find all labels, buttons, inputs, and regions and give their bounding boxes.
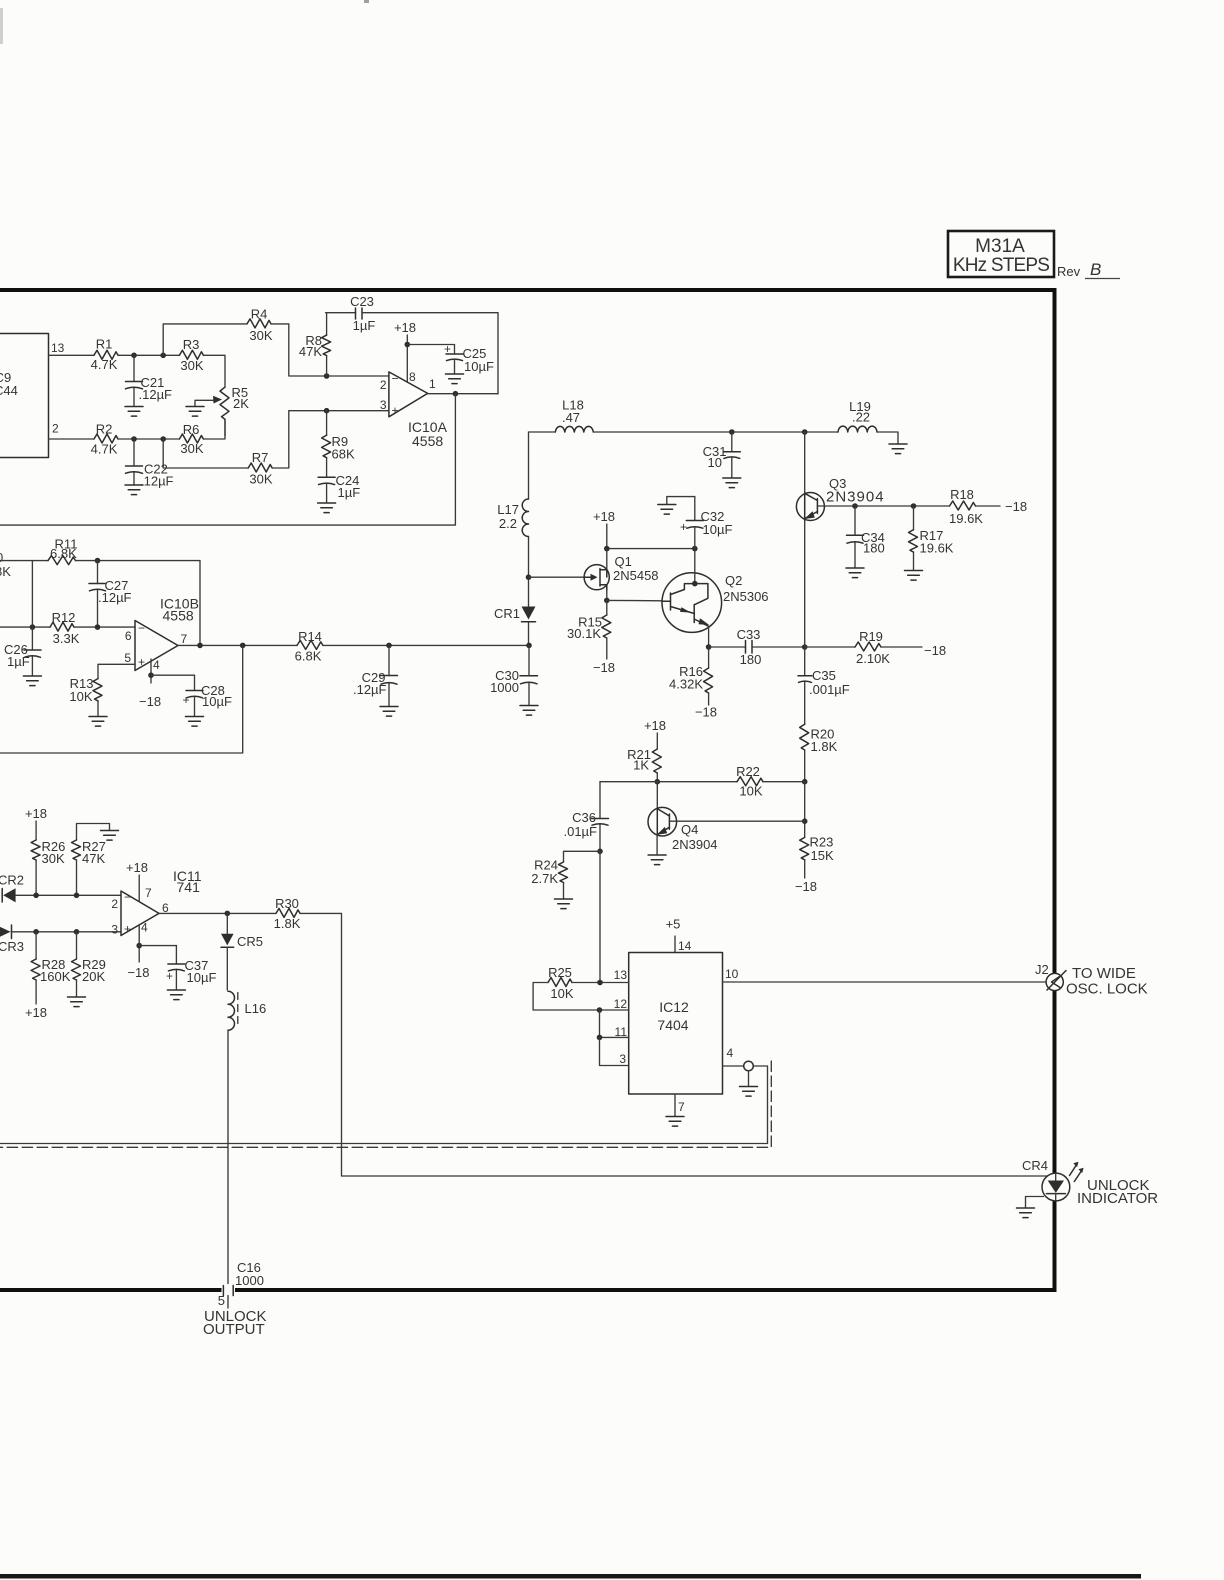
svg-text:2: 2: [52, 422, 59, 436]
capacitor C24 1uF: [318, 473, 360, 503]
node junction: [95, 558, 101, 564]
node junction: [160, 353, 166, 359]
svg-text:C36: C36: [572, 810, 596, 825]
svg-text:8K: 8K: [0, 564, 11, 579]
node junction: [692, 546, 698, 552]
ground (C32): [658, 497, 695, 514]
capacitor C35 .001uF: [798, 647, 850, 724]
resistor R18 19.6K: [949, 487, 1000, 526]
svg-text:30K: 30K: [180, 441, 203, 456]
capacitor C33 180: [709, 627, 805, 667]
svg-text:4558: 4558: [412, 433, 443, 449]
wire R11 to feedback corner: [76, 561, 201, 646]
svg-text:2K: 2K: [233, 396, 249, 411]
ground: [1017, 1208, 1035, 1218]
resistor R24 2.7K: [531, 851, 600, 898]
wire IC9 pin13 to R1: [49, 354, 95, 356]
wire pin 4 to -18: [150, 659, 152, 683]
wire pin 5 to R13: [98, 664, 135, 678]
inductor L17 2.2: [497, 432, 528, 577]
svg-text:10µF: 10µF: [187, 970, 217, 985]
svg-text:1µF: 1µF: [7, 654, 30, 669]
svg-text:20K: 20K: [82, 969, 105, 984]
svg-text:+18: +18: [394, 320, 416, 335]
svg-text:−18: −18: [695, 705, 717, 720]
inductor L18 .47: [555, 398, 593, 433]
node junction: [240, 643, 246, 649]
ground: [446, 374, 464, 384]
resistor R20 1.8K: [800, 724, 838, 782]
wire Q1 drain / source vertical: [606, 549, 608, 601]
svg-text:+18: +18: [644, 718, 666, 733]
svg-text:12: 12: [614, 997, 628, 1011]
wire drain rail: [607, 548, 695, 550]
svg-text:5: 5: [124, 651, 131, 665]
resistor R2 4.7K: [91, 422, 118, 457]
svg-text:Q4: Q4: [681, 822, 698, 837]
svg-text:8: 8: [409, 370, 416, 384]
+18 supply (IC11 pin 7): [126, 860, 148, 902]
node junction: [655, 779, 661, 785]
svg-text:30K: 30K: [42, 851, 65, 866]
svg-text:−: −: [124, 890, 131, 904]
svg-text:2: 2: [111, 897, 118, 911]
svg-text:4.32K: 4.32K: [669, 677, 703, 692]
wire IC11 pin 4: [138, 925, 140, 962]
resistor R6 30K: [179, 422, 203, 456]
resistor R15 30.1K: [567, 600, 611, 659]
resistor R29 20K: [72, 932, 106, 997]
svg-text:2.7K: 2.7K: [531, 871, 558, 886]
wire L17 top to L18: [529, 431, 556, 433]
svg-text:10µF: 10µF: [464, 359, 494, 374]
node junction (pin 11): [597, 1035, 603, 1041]
shield boundary (dashed): [0, 1061, 771, 1147]
svg-text:+: +: [392, 404, 399, 418]
svg-text:47K: 47K: [82, 851, 105, 866]
wire IC12 pin 10 to J2: [723, 981, 1047, 983]
capacitor C34 180: [847, 506, 885, 568]
ground: [648, 855, 666, 865]
wire left edge to R11: [0, 560, 48, 562]
ground: [666, 1117, 684, 1127]
svg-text:R30: R30: [275, 896, 299, 911]
connector J2: [1035, 962, 1066, 991]
svg-text:OSC. LOCK: OSC. LOCK: [1066, 981, 1148, 998]
resistor R13 10K: [69, 676, 102, 716]
wire feedthrough down and left (unlock line): [0, 1066, 768, 1144]
svg-text:M31A: M31A: [975, 236, 1025, 257]
node junction (Q1 gate): [526, 574, 532, 580]
svg-text:.12µF: .12µF: [353, 682, 387, 697]
wire R1 to R3: [118, 354, 179, 356]
node junction: [852, 503, 858, 509]
node junction (Q3 collector): [802, 429, 808, 435]
ground: [889, 444, 907, 454]
svg-text:CR3: CR3: [0, 939, 24, 954]
wire R3 to R5 top: [203, 355, 225, 387]
svg-text:6: 6: [125, 629, 132, 643]
svg-text:R25: R25: [548, 965, 572, 980]
op-amp U IC11 741: [111, 868, 201, 937]
svg-text:Rev: Rev: [1057, 264, 1081, 279]
svg-text:IC12: IC12: [659, 999, 689, 1015]
ground: [125, 407, 143, 417]
IC9 box (clipped at left edge): [0, 334, 49, 458]
potentiometer R5 2K: [195, 385, 249, 419]
svg-text:30K: 30K: [180, 358, 203, 373]
wire left edge to R12: [0, 626, 50, 628]
ground: [905, 571, 923, 581]
+18 supply (Q1 drain): [593, 509, 615, 549]
svg-text:3: 3: [380, 398, 387, 412]
svg-text:.22: .22: [852, 410, 870, 425]
svg-text:R1: R1: [96, 337, 113, 352]
wire R4 to op-amp pin 2 node: [271, 324, 389, 376]
wire R6 to R5 bottom: [203, 419, 225, 439]
ground: [723, 478, 741, 488]
svg-text:CR4: CR4: [1022, 1158, 1048, 1173]
wire L16 down to C16: [227, 1030, 229, 1283]
wire Q1 gate: [529, 576, 585, 578]
svg-text:J2: J2: [1035, 962, 1049, 977]
svg-text:10K: 10K: [550, 986, 573, 1001]
LED CR4 unlock indicator: [1022, 1158, 1084, 1201]
ground (R27 top): [101, 831, 119, 841]
wire output loop to left edge: [0, 394, 455, 525]
diode CR1: [494, 577, 536, 645]
svg-text:7: 7: [181, 632, 188, 646]
svg-text:.47: .47: [562, 410, 580, 425]
wire Q4 base: [669, 820, 804, 822]
svg-text:R19: R19: [859, 629, 883, 644]
svg-text:13: 13: [51, 341, 65, 355]
svg-text:.01µF: .01µF: [563, 824, 597, 839]
capacitor C27 .12uF: [89, 561, 132, 628]
svg-text:0: 0: [0, 550, 3, 565]
svg-text:1µF: 1µF: [353, 318, 376, 333]
svg-text:1.8K: 1.8K: [274, 916, 301, 931]
wire +18 branch to C25: [407, 345, 454, 355]
wire pin 11 node to pin 3: [600, 1037, 629, 1065]
inductor L16: [228, 991, 266, 1030]
svg-text:+18: +18: [593, 509, 615, 524]
wire C32 node to Q2 collector: [694, 549, 696, 575]
svg-text:R6: R6: [183, 422, 200, 437]
node junction: [405, 342, 411, 348]
resistor R17 19.6K: [909, 506, 954, 570]
svg-text:C23: C23: [350, 294, 374, 309]
resistor R19 2.10K: [805, 629, 922, 666]
resistor R8 47K: [299, 313, 331, 376]
svg-text:2.2: 2.2: [499, 516, 517, 531]
svg-text:4: 4: [727, 1046, 734, 1060]
wire R5 bottom to R6 row: [224, 419, 226, 436]
svg-text:−18: −18: [593, 660, 615, 675]
svg-text:L16: L16: [245, 1001, 267, 1016]
resistor R26 30K: [31, 839, 65, 895]
capacitor C26 1uF: [4, 627, 41, 675]
svg-text:−18: −18: [127, 965, 149, 980]
svg-text:R3: R3: [183, 337, 200, 352]
svg-text:7: 7: [678, 1100, 685, 1114]
wire C36 node down to IC12 pin 13: [599, 851, 601, 982]
svg-text:30K: 30K: [249, 328, 272, 343]
svg-text:4.7K: 4.7K: [91, 442, 118, 457]
svg-text:68K: 68K: [332, 447, 355, 462]
svg-text:4: 4: [153, 658, 160, 672]
svg-text:B: B: [1090, 260, 1101, 279]
resistor R3 30K: [179, 337, 203, 373]
svg-text:15K: 15K: [811, 848, 834, 863]
svg-text:2: 2: [380, 378, 387, 392]
wire Q2 emitter down: [708, 626, 710, 647]
svg-text:R18: R18: [950, 487, 974, 502]
capacitor C37 10uF: [139, 946, 216, 990]
svg-text:1µF: 1µF: [338, 485, 361, 500]
node junction: [197, 643, 203, 649]
node junction: [526, 643, 532, 649]
svg-text:2N5306: 2N5306: [723, 589, 769, 604]
wire IC9 pin2 to R2: [49, 438, 95, 440]
svg-text:+5: +5: [666, 917, 681, 932]
svg-text:+: +: [124, 922, 131, 936]
page bottom edge line: [0, 1574, 1141, 1579]
svg-text:47K: 47K: [299, 344, 322, 359]
svg-text:CR5: CR5: [237, 934, 263, 949]
node junction: [802, 644, 808, 650]
svg-text:R4: R4: [251, 307, 268, 322]
svg-text:C33: C33: [737, 627, 761, 642]
svg-text:R14: R14: [298, 629, 322, 644]
capacitor C30 1000: [490, 645, 537, 705]
svg-text:C35: C35: [812, 668, 836, 683]
ground: [555, 899, 573, 909]
svg-text:1: 1: [429, 377, 436, 391]
wire output loop to left edge: [0, 645, 243, 753]
node junction (pin 12): [597, 1007, 603, 1013]
wire R2 to R6: [118, 438, 179, 440]
svg-text:6.8K: 6.8K: [295, 649, 322, 664]
wire R25 left loop to pin 12: [533, 983, 629, 1011]
svg-text:1K: 1K: [633, 758, 649, 773]
ground: [23, 676, 41, 686]
wire node up to R4: [163, 324, 247, 355]
ground: [167, 990, 185, 1000]
svg-text:+: +: [138, 655, 145, 669]
node junction: [160, 436, 166, 442]
wire R12 to op-amp pin 6: [74, 626, 135, 628]
IC12 7404 box: [614, 953, 739, 1115]
+5 supply (IC12 pin 14): [666, 917, 692, 954]
svg-text:L17: L17: [497, 502, 519, 517]
node junction: [802, 779, 808, 785]
resistor R22 10K: [657, 764, 804, 799]
svg-text:−18: −18: [795, 879, 817, 894]
rev B annotation: [1057, 260, 1120, 279]
svg-text:7404: 7404: [657, 1017, 688, 1033]
transistor Q1 2N5458: [584, 554, 658, 590]
+18 supply (R26): [25, 806, 47, 840]
node junction: [33, 893, 39, 899]
svg-text:7: 7: [145, 886, 152, 900]
feedthrough bushing: [744, 1061, 754, 1086]
ground: [846, 568, 864, 578]
diode CR3: [0, 925, 24, 955]
capacitor C29 .12uF: [353, 645, 398, 706]
transistor Q3 2N3904: [796, 432, 884, 647]
svg-text:R22: R22: [736, 764, 760, 779]
svg-text:TO WIDE: TO WIDE: [1072, 965, 1136, 982]
svg-text:3: 3: [111, 923, 118, 937]
svg-text:13: 13: [614, 968, 628, 982]
ground: [186, 717, 204, 727]
svg-text:OUTPUT: OUTPUT: [203, 1321, 265, 1338]
wire C23 to output (feedback): [362, 313, 498, 394]
resistor R23 15K: [800, 835, 834, 879]
R10 6.8K (clipped at left edge): [0, 550, 11, 579]
resistor R4 30K: [247, 307, 273, 344]
node junction: [131, 353, 137, 359]
wire CR4 cathode to ground: [1026, 1197, 1044, 1208]
svg-text:Q2: Q2: [725, 573, 742, 588]
resistor R21 1K: [627, 747, 661, 782]
svg-text:+18: +18: [25, 806, 47, 821]
ground: [520, 706, 538, 716]
capacitor C28 10uF: [151, 675, 232, 716]
wire CR2 to pin 2: [16, 894, 121, 896]
svg-text:10: 10: [708, 455, 722, 470]
ground (R5 wiper): [186, 407, 204, 417]
svg-text:30K: 30K: [249, 472, 272, 487]
svg-text:.001µF: .001µF: [809, 682, 850, 697]
+18 supply (R21): [644, 718, 666, 749]
node junction: [604, 546, 610, 552]
resistor R14 6.8K: [295, 629, 323, 664]
op-amp U IC10B 4558: [124, 596, 199, 673]
schematic frame border: [0, 290, 1055, 1290]
svg-text:.12µF: .12µF: [139, 387, 173, 402]
svg-text:−18: −18: [924, 643, 946, 658]
svg-text:4558: 4558: [163, 608, 194, 624]
svg-text:30.1K: 30.1K: [567, 626, 601, 641]
resistor R28 160K: [31, 932, 71, 1004]
node junction: [386, 643, 392, 649]
svg-text:10K: 10K: [69, 689, 92, 704]
ground: [125, 485, 143, 495]
capacitor C25 10uF: [444, 342, 494, 374]
node junction: [136, 943, 142, 949]
ground: [318, 503, 336, 513]
capacitor C22 .12uF: [126, 439, 174, 489]
+18 supply (IC10A pin 8): [394, 320, 416, 382]
wire output pin 1: [428, 393, 498, 395]
svg-text:C44: C44: [0, 383, 18, 398]
svg-text:R12: R12: [52, 610, 76, 625]
svg-text:+: +: [166, 969, 173, 983]
capacitor C31 10: [703, 432, 741, 478]
resistor R1 4.7K: [91, 337, 118, 373]
svg-text:R2: R2: [96, 422, 113, 437]
wire IC11 output: [159, 912, 276, 914]
node junction: [131, 436, 137, 442]
resistor R16 4.32K: [669, 647, 713, 705]
node junction: [597, 849, 603, 855]
svg-text:19.6K: 19.6K: [949, 511, 983, 526]
node junction (output): [453, 391, 459, 397]
node junction: [148, 672, 154, 678]
node junction: [225, 911, 231, 917]
ground: [89, 717, 107, 727]
wire R11 left down to input row: [31, 561, 33, 628]
wire CR3 to pin 3: [12, 931, 122, 933]
wire IC12 pin 7 to ground: [674, 1094, 676, 1116]
svg-text:741: 741: [177, 879, 201, 895]
diode CR2: [0, 873, 24, 903]
svg-text:CR2: CR2: [0, 873, 24, 888]
capacitor C21 .12uF: [126, 355, 173, 406]
wire R30 to CR4: [300, 913, 1047, 1176]
title box M31A KHz STEPS: [948, 231, 1054, 277]
transistor Q2 2N5306: [662, 573, 769, 633]
TO WIDE OSC. LOCK label: [1066, 965, 1148, 998]
svg-text:+: +: [680, 520, 687, 534]
resistor R25 10K: [548, 965, 629, 1001]
wire node down to R7: [163, 439, 248, 468]
feedthrough capacitor C16 1000: [218, 1260, 264, 1308]
ground (feedthrough): [740, 1087, 758, 1097]
svg-text:1000: 1000: [235, 1273, 264, 1288]
svg-text:1.8K: 1.8K: [811, 739, 838, 754]
svg-text:4.7K: 4.7K: [91, 357, 118, 372]
svg-text:Q1: Q1: [615, 554, 632, 569]
resistor R12 3.3K: [50, 610, 80, 646]
svg-text:10µF: 10µF: [703, 522, 733, 537]
resistor R9 68K: [322, 411, 355, 478]
wire pin 12 node to pin 11: [600, 1010, 629, 1037]
node junction (Q1 source): [604, 598, 610, 604]
svg-text:19.6K: 19.6K: [920, 541, 954, 556]
wire IC12 pin 4 to feedthrough: [723, 1065, 744, 1067]
wire Q1 source to Q2 base: [607, 599, 662, 601]
svg-text:+18: +18: [25, 1005, 47, 1020]
wire Q3 base to divider: [817, 505, 949, 507]
svg-text:CR1: CR1: [494, 606, 520, 621]
op-amp U IC10A 4558: [380, 370, 448, 449]
svg-text:10: 10: [725, 967, 739, 981]
svg-text:+18: +18: [126, 860, 148, 875]
diode CR5: [221, 913, 263, 990]
scan edge mark: [0, 8, 3, 44]
resistor R11 6.8K: [48, 537, 77, 565]
svg-text:3: 3: [619, 1052, 626, 1066]
svg-text:10K: 10K: [739, 784, 762, 799]
node junction: [74, 929, 80, 935]
resistor R7 30K: [248, 450, 273, 487]
wire output pin 7 to R14: [178, 644, 297, 646]
UNLOCK OUTPUT label: [203, 1308, 267, 1338]
wire R14 to CR1 node: [323, 644, 529, 646]
node junction: [30, 624, 36, 630]
svg-text:−18: −18: [139, 694, 161, 709]
node junction (pin 3): [324, 408, 330, 414]
svg-text:−: −: [392, 372, 399, 386]
wire R20 node down to Q4 base node: [804, 782, 806, 838]
node junction (pin 13): [597, 980, 603, 986]
wire R7 to op-amp pin 3 node: [272, 411, 389, 468]
resistor R30 1.8K: [274, 896, 301, 931]
svg-text:180: 180: [863, 541, 885, 556]
